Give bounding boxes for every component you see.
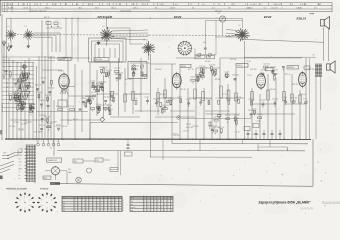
svg-text:C12 100: C12 100 (13, 79, 19, 81)
svg-text:3: 3 (147, 201, 148, 203)
svg-text:38 1: 38 1 (78, 8, 82, 10)
svg-text:6: 6 (108, 197, 109, 199)
svg-text:9: 9 (147, 210, 148, 212)
svg-text:5 41 90: 5 41 90 (296, 7, 302, 9)
svg-text:6: 6 (144, 207, 145, 209)
svg-text:C21 30: C21 30 (235, 132, 240, 134)
svg-text:3: 3 (51, 199, 52, 201)
svg-text:R22 25k: R22 25k (193, 126, 199, 128)
svg-text:C15 10n: C15 10n (183, 130, 189, 132)
svg-text:7: 7 (158, 198, 159, 200)
svg-text:1: 1 (97, 205, 98, 207)
svg-text:2: 2 (112, 202, 113, 204)
svg-text:0,4: 0,4 (175, 4, 178, 6)
svg-text:R2 0,1M: R2 0,1M (50, 121, 57, 123)
svg-text:UNIMEX 505: UNIMEX 505 (48, 160, 57, 162)
svg-text:C28 8µ: C28 8µ (81, 98, 87, 100)
svg-text:C1 50: C1 50 (246, 61, 251, 63)
svg-text:R5 2M: R5 2M (186, 124, 191, 126)
svg-text:C1 50: C1 50 (145, 96, 149, 98)
svg-text:5: 5 (86, 210, 87, 212)
svg-text:C28 8µ: C28 8µ (40, 115, 46, 117)
svg-text:2: 2 (93, 197, 94, 199)
svg-text:4: 4 (112, 200, 113, 202)
svg-text:C15 10n: C15 10n (28, 104, 34, 106)
svg-text:6: 6 (168, 198, 169, 200)
svg-text:R14 0,3: R14 0,3 (35, 85, 41, 87)
svg-text:6: 6 (164, 198, 165, 200)
svg-text:R25 0,5M: R25 0,5M (186, 127, 194, 129)
svg-text:1: 1 (82, 200, 83, 202)
svg-text:5: 5 (144, 210, 145, 212)
svg-text:14: 14 (89, 4, 91, 6)
svg-text:4: 4 (97, 202, 98, 204)
svg-text:8: 8 (115, 210, 116, 212)
svg-text:7: 7 (46, 208, 47, 210)
svg-text:120V: 120V (19, 149, 23, 151)
svg-text:5: 5 (161, 210, 162, 212)
svg-text:4: 4 (151, 204, 152, 206)
svg-text:5: 5 (82, 197, 83, 199)
svg-text:8: 8 (147, 207, 148, 209)
svg-text:150V: 150V (19, 152, 23, 154)
svg-text:R17 1k: R17 1k (56, 106, 61, 108)
svg-text:20: 20 (9, 4, 11, 6)
svg-text:7: 7 (78, 202, 79, 204)
svg-text:2: 2 (19, 199, 20, 201)
svg-text:3: 3 (101, 200, 102, 202)
svg-text:R2 0,1M: R2 0,1M (9, 126, 16, 128)
svg-text:7: 7 (24, 208, 25, 210)
svg-text:6: 6 (123, 200, 124, 202)
svg-text:C24 500: C24 500 (250, 69, 256, 71)
svg-text:3: 3 (144, 198, 145, 200)
svg-text:5: 5 (168, 207, 169, 209)
svg-text:4: 4 (154, 210, 155, 212)
svg-text:5,6: 5,6 (143, 4, 146, 6)
svg-text:1,4: 1,4 (22, 4, 25, 6)
svg-text:R2 0,1M: R2 0,1M (114, 74, 121, 76)
svg-text:C30: C30 (203, 42, 206, 44)
svg-text:2: 2 (144, 204, 145, 206)
svg-text:4: 4 (104, 202, 105, 204)
svg-text:4: 4 (108, 207, 109, 209)
svg-text:C1 50: C1 50 (91, 92, 96, 94)
svg-text:2: 2 (41, 199, 42, 201)
svg-text:6: 6 (86, 200, 87, 202)
svg-text:6: 6 (115, 197, 116, 199)
svg-text:C7 5k: C7 5k (247, 75, 252, 77)
svg-text:561,5: 561,5 (111, 8, 116, 10)
svg-text:6: 6 (93, 207, 94, 209)
svg-text:5: 5 (147, 204, 148, 206)
svg-text:L4: L4 (76, 4, 78, 6)
svg-text:C24 500: C24 500 (272, 99, 278, 101)
svg-text:6: 6 (151, 210, 152, 212)
svg-text:R25 0,5M: R25 0,5M (34, 132, 42, 134)
svg-text:C21 30: C21 30 (186, 99, 191, 101)
svg-text:C7 5k: C7 5k (133, 98, 137, 100)
svg-text:L8: L8 (131, 4, 133, 6)
svg-text:KBW04: KBW04 (288, 67, 294, 69)
svg-text:6: 6 (281, 8, 282, 10)
svg-text:90: 90 (155, 8, 157, 10)
svg-text:5,6: 5,6 (160, 4, 163, 6)
svg-text:1: 1 (112, 207, 113, 209)
svg-text:2: 2 (158, 210, 159, 212)
svg-text:14: 14 (36, 4, 38, 6)
svg-text:R17 1k: R17 1k (285, 74, 291, 76)
svg-text:1: 1 (104, 210, 105, 212)
svg-text:×××: ××× (310, 12, 315, 16)
svg-text:1: 1 (24, 196, 25, 198)
svg-text:2: 2 (171, 210, 172, 212)
svg-text:5: 5 (51, 205, 52, 207)
svg-text:1: 1 (75, 207, 76, 209)
svg-text:9: 9 (78, 197, 79, 199)
svg-text:R30 150: R30 150 (62, 126, 68, 128)
svg-text:9: 9 (78, 205, 79, 207)
svg-text:R17 1k: R17 1k (26, 82, 32, 84)
svg-text:R17 1k: R17 1k (271, 67, 277, 69)
svg-text:2: 2 (89, 205, 90, 207)
svg-text:41: 41 (192, 8, 194, 10)
svg-text:2: 2 (123, 207, 124, 209)
svg-text:R2 0,1M: R2 0,1M (209, 128, 216, 130)
svg-text:5: 5 (29, 205, 30, 207)
svg-text:3: 3 (154, 204, 155, 206)
svg-text:R14 0,3: R14 0,3 (18, 130, 24, 132)
svg-text:8: 8 (164, 210, 165, 212)
svg-text:13,5 R20: 13,5 R20 (95, 59, 102, 61)
svg-text:6: 6 (151, 198, 152, 200)
svg-text:5: 5 (89, 200, 90, 202)
svg-text:C12 100: C12 100 (103, 97, 109, 99)
svg-text:1: 1 (75, 197, 76, 199)
svg-text:C50: C50 (68, 169, 71, 171)
svg-text:4 V: 4 V (19, 165, 21, 167)
svg-text:C4 200: C4 200 (257, 114, 263, 116)
svg-text:1: 1 (46, 196, 47, 198)
svg-text:2: 2 (101, 207, 102, 209)
svg-text:6: 6 (123, 205, 124, 207)
svg-text:7: 7 (112, 205, 113, 207)
svg-text:přep.: přep. (63, 197, 67, 199)
svg-text:ohistoria: ohistoria (300, 207, 314, 211)
svg-text:R5 2M: R5 2M (234, 118, 240, 120)
svg-text:4: 4 (75, 202, 76, 204)
svg-text:R30 150: R30 150 (47, 88, 53, 90)
svg-text:3: 3 (119, 200, 120, 202)
svg-text:R5 2M: R5 2M (215, 79, 221, 81)
svg-text:C33: C33 (208, 57, 211, 59)
svg-text:38 1: 38 1 (95, 8, 99, 10)
svg-text:8: 8 (115, 200, 116, 202)
svg-text:7: 7 (75, 200, 76, 202)
svg-text:C4 200: C4 200 (260, 100, 265, 102)
svg-text:1,4 6 8,3: 1,4 6 8,3 (250, 4, 257, 6)
svg-text:220V: 220V (19, 155, 23, 157)
svg-text:R5 2M: R5 2M (45, 116, 51, 118)
svg-text:48 6 112: 48 6 112 (215, 11, 222, 13)
svg-text:L5: L5 (239, 25, 241, 27)
svg-text:8: 8 (101, 210, 102, 212)
svg-text:7: 7 (164, 207, 165, 209)
svg-text:R17 1k: R17 1k (39, 125, 45, 127)
svg-text:R17 1k: R17 1k (216, 98, 221, 100)
svg-text:6 2: 6 2 (264, 8, 267, 10)
svg-text:6: 6 (154, 198, 155, 200)
svg-text:72: 72 (190, 4, 192, 6)
svg-text:4: 4 (86, 202, 87, 204)
svg-text:C7 5k: C7 5k (67, 120, 71, 122)
svg-text:C21 30: C21 30 (135, 94, 141, 96)
svg-text:7: 7 (108, 210, 109, 212)
svg-text:5: 5 (151, 201, 152, 203)
svg-text:Zapojení přijímače 605A „BLANÍ: Zapojení přijímače 605A „BLANÍK“ (259, 199, 312, 204)
svg-text:4: 4 (104, 205, 105, 207)
svg-text:9: 9 (119, 210, 120, 212)
svg-text:3: 3 (97, 197, 98, 199)
svg-text:C12 100: C12 100 (68, 106, 74, 108)
svg-text:PŘEPÍNAČ ROZSAHŮ: PŘEPÍNAČ ROZSAHŮ (6, 187, 27, 190)
svg-text:R17 1k: R17 1k (173, 134, 178, 136)
svg-text:C1 50: C1 50 (178, 97, 182, 99)
svg-text:R5 2M: R5 2M (249, 110, 255, 112)
svg-text:4: 4 (119, 205, 120, 207)
svg-text:R14 0,3: R14 0,3 (95, 87, 101, 89)
svg-text:7: 7 (168, 210, 169, 212)
svg-text:1: 1 (86, 197, 87, 199)
svg-text:90: 90 (228, 8, 230, 10)
svg-text:6: 6 (104, 200, 105, 202)
svg-text:20: 20 (119, 4, 121, 6)
svg-text:5 41 90: 5 41 90 (300, 4, 306, 6)
svg-text:POHLED: POHLED (40, 188, 49, 190)
svg-text:6 8: 6 8 (318, 4, 320, 6)
svg-text:3: 3 (112, 210, 113, 212)
svg-text:R2 0,1M: R2 0,1M (291, 98, 298, 100)
svg-text:207,5: 207,5 (133, 8, 138, 10)
svg-text:2: 2 (75, 205, 76, 207)
svg-text:R22 25k: R22 25k (236, 97, 242, 99)
svg-text:5: 5 (93, 202, 94, 204)
svg-text:R25 0,5M: R25 0,5M (131, 65, 139, 67)
svg-text:ANT 50: ANT 50 (44, 16, 50, 19)
svg-text:R14 0,3: R14 0,3 (191, 76, 197, 78)
svg-text:R14 0,3: R14 0,3 (300, 94, 306, 96)
svg-text:5: 5 (101, 202, 102, 204)
svg-text:1,4 6 8,3: 1,4 6 8,3 (246, 7, 253, 9)
svg-text:4: 4 (104, 207, 105, 209)
svg-text:C1 50: C1 50 (256, 120, 260, 122)
svg-text:1: 1 (101, 205, 102, 207)
svg-text:7: 7 (119, 197, 120, 199)
svg-text:ODB.: ODB. (44, 178, 48, 180)
svg-text:1: 1 (119, 207, 120, 209)
svg-text:R30 150: R30 150 (99, 82, 105, 84)
svg-text:9: 9 (168, 201, 169, 203)
svg-text:R9 50k: R9 50k (205, 61, 211, 63)
svg-text:R22 25k: R22 25k (292, 84, 298, 86)
svg-text:C24 500: C24 500 (209, 65, 215, 67)
svg-text:7: 7 (82, 205, 83, 207)
svg-text:9: 9 (19, 205, 20, 207)
svg-text:7: 7 (78, 210, 79, 212)
svg-text:4: 4 (108, 202, 109, 204)
svg-text:C7 5k: C7 5k (222, 94, 227, 96)
svg-text:L3: L3 (103, 26, 105, 28)
svg-text:1: 1 (93, 205, 94, 207)
svg-text:20: 20 (65, 4, 67, 6)
svg-text:1: 1 (108, 200, 109, 202)
svg-text:T2: T2 (313, 55, 315, 57)
svg-text:R9 50k: R9 50k (107, 105, 113, 107)
svg-text:C7 5k: C7 5k (303, 98, 307, 100)
svg-text:C28 8µ: C28 8µ (260, 69, 266, 71)
svg-text:C28 8µ: C28 8µ (27, 121, 32, 123)
svg-text:1 33,6 62,1 120,6 201: 1 33,6 62,1 120,6 201 (30, 11, 46, 13)
svg-text:6,3V: 6,3V (19, 162, 22, 164)
svg-text:207,5: 207,5 (170, 8, 175, 10)
svg-text:2: 2 (115, 202, 116, 204)
svg-text:R14 0,3: R14 0,3 (106, 70, 112, 72)
svg-text:6: 6 (154, 207, 155, 209)
svg-text:C15 10n: C15 10n (114, 68, 120, 70)
svg-text:PŘIPOJENÍ: PŘIPOJENÍ (1, 103, 4, 112)
svg-text:5: 5 (62, 8, 63, 10)
svg-text:4: 4 (158, 207, 159, 209)
svg-text:3: 3 (161, 201, 162, 203)
svg-text:561,5: 561,5 (45, 8, 50, 10)
svg-text:C12 100: C12 100 (263, 63, 269, 65)
svg-text:C15 10n: C15 10n (214, 116, 220, 118)
svg-text:C24 500: C24 500 (201, 68, 207, 70)
svg-text:L8: L8 (202, 4, 204, 6)
svg-text:2: 2 (119, 202, 120, 204)
svg-text:R17 1k: R17 1k (73, 119, 78, 121)
svg-text:8,3 88: 8,3 88 (8, 8, 13, 10)
svg-text:0 V: 0 V (19, 158, 21, 160)
svg-text:R17 1k: R17 1k (225, 115, 231, 117)
svg-text:L4: L4 (291, 4, 293, 6)
svg-text:280V: 280V (19, 168, 23, 170)
svg-text:C15 10n: C15 10n (272, 73, 278, 75)
svg-text:4: 4 (171, 198, 172, 200)
svg-text:20 6,3 72: 20 6,3 72 (271, 7, 278, 9)
svg-text:BF20k: BF20k (181, 66, 186, 68)
svg-text:8: 8 (161, 207, 162, 209)
svg-text:C15 10n: C15 10n (252, 134, 258, 136)
svg-text:R9 50k: R9 50k (160, 94, 166, 96)
svg-text:16µF: 16µF (68, 172, 72, 174)
svg-text:R9 50k: R9 50k (13, 94, 19, 96)
svg-text:C44 2n: C44 2n (237, 65, 242, 67)
svg-text:4: 4 (82, 202, 83, 204)
svg-text:1: 1 (89, 207, 90, 209)
svg-text:R22 25k: R22 25k (162, 105, 168, 107)
svg-text:C1 50: C1 50 (283, 97, 287, 99)
svg-text:8: 8 (112, 197, 113, 199)
svg-text:C21 30: C21 30 (109, 91, 115, 93)
svg-text:C24 500: C24 500 (233, 115, 239, 117)
svg-text:C24 500: C24 500 (155, 69, 161, 71)
svg-text:5: 5 (154, 201, 155, 203)
svg-text:3: 3 (123, 202, 124, 204)
svg-text:220V: 220V (3, 153, 7, 155)
svg-text:6: 6 (93, 210, 94, 212)
svg-text:6: 6 (123, 210, 124, 212)
svg-text:C12 100: C12 100 (13, 122, 19, 124)
svg-text:6 2: 6 2 (212, 8, 215, 10)
svg-text:L2: L2 (25, 26, 27, 28)
svg-text:6: 6 (245, 4, 246, 6)
svg-text:přep.: přep. (131, 198, 135, 200)
svg-text:C7 5k: C7 5k (96, 104, 101, 106)
svg-text:R14 0,3: R14 0,3 (101, 67, 107, 69)
svg-text:EF22: EF22 (264, 15, 272, 19)
svg-text:9,1: 9,1 (218, 4, 221, 6)
svg-text:4: 4 (86, 205, 87, 207)
svg-text:L8: L8 (231, 4, 233, 6)
svg-text:6 8: 6 8 (314, 7, 316, 9)
svg-text:MA9301: MA9301 (59, 58, 65, 61)
svg-text:C4 200: C4 200 (41, 78, 47, 80)
svg-text:R17 1k: R17 1k (219, 127, 225, 129)
svg-text:9,1: 9,1 (53, 4, 56, 6)
svg-text:C32 40: C32 40 (196, 57, 201, 59)
svg-text:C28 8µ: C28 8µ (168, 99, 174, 101)
svg-text:5: 5 (104, 197, 105, 199)
svg-text:3: 3 (144, 201, 145, 203)
svg-text:9: 9 (171, 204, 172, 206)
svg-text:C21 30: C21 30 (180, 89, 186, 91)
svg-text:R22 25k: R22 25k (230, 59, 236, 61)
svg-text:4: 4 (151, 207, 152, 209)
svg-text:72: 72 (107, 4, 109, 6)
svg-text:C24 500: C24 500 (55, 125, 61, 127)
svg-text:C28 8µ: C28 8µ (36, 92, 42, 94)
svg-text:2: 2 (108, 205, 109, 207)
svg-text:8: 8 (260, 4, 261, 6)
svg-text:207,5: 207,5 (23, 8, 28, 10)
svg-text:R9 50k: R9 50k (270, 89, 276, 91)
svg-text:9: 9 (158, 201, 159, 203)
svg-text:R17 1k: R17 1k (226, 98, 231, 100)
svg-text:6: 6 (164, 204, 165, 206)
svg-text:R22 25k: R22 25k (232, 75, 238, 77)
svg-text:C1 50: C1 50 (91, 80, 96, 82)
svg-text:20 6,3 72: 20 6,3 72 (275, 4, 282, 6)
svg-text:R22 25k: R22 25k (206, 98, 212, 100)
svg-text:2: 2 (89, 202, 90, 204)
svg-text:5: 5 (82, 210, 83, 212)
svg-text:EBL21: EBL21 (297, 16, 307, 20)
svg-text:ECH21: ECH21 (59, 71, 65, 73)
svg-text:C51: C51 (96, 160, 99, 162)
svg-text:RADIOHIST: RADIOHIST (322, 201, 340, 205)
svg-text:9: 9 (97, 207, 98, 209)
svg-text:9: 9 (41, 205, 42, 207)
svg-text:4: 4 (168, 204, 169, 206)
svg-text:6: 6 (86, 207, 87, 209)
svg-text:R40: R40 (74, 161, 77, 163)
svg-text:2: 2 (78, 207, 79, 209)
svg-text:L1: L1 (8, 26, 10, 28)
svg-text:124 227 318,6: 124 227 318,6 (120, 11, 131, 13)
svg-text:5: 5 (75, 210, 76, 212)
svg-text:R22 25k: R22 25k (125, 79, 131, 81)
